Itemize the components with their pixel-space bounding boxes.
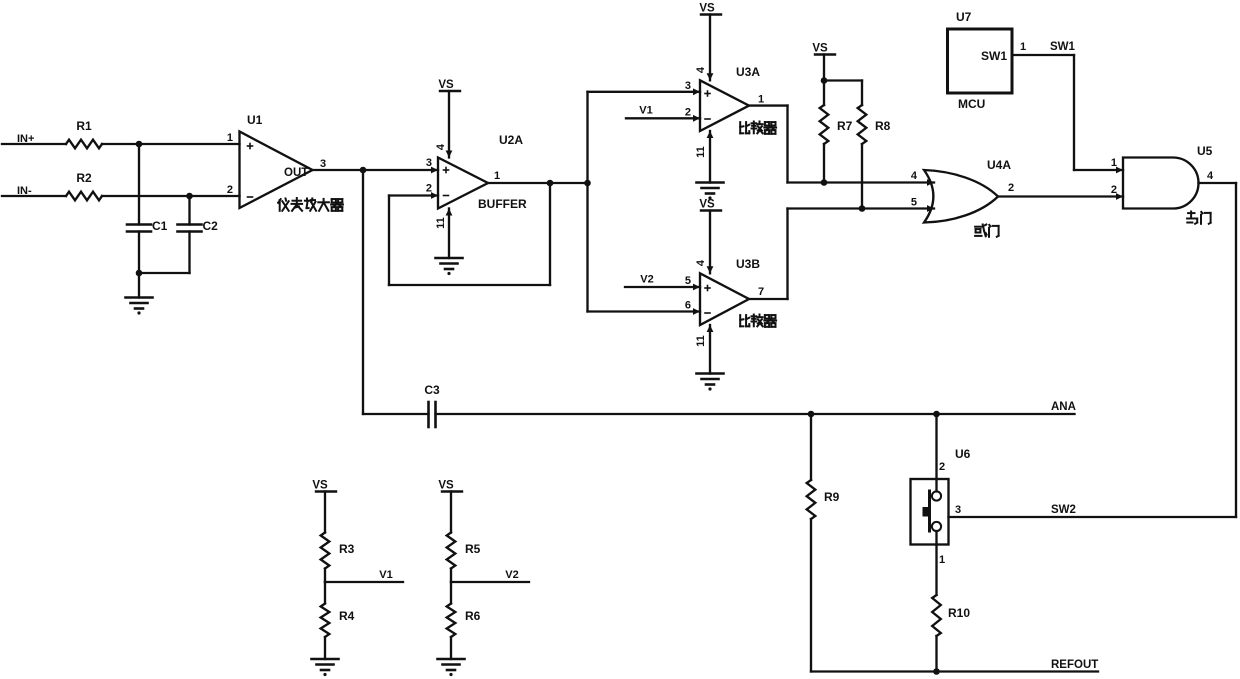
wire R8 lower stem <box>861 144 863 209</box>
power flag VS for U3B <box>699 199 721 211</box>
wire SW1 down to U5 pin1 <box>1073 55 1075 170</box>
wire to ground <box>138 273 140 298</box>
svg-text:R3: R3 <box>339 542 355 556</box>
svg-text:V2: V2 <box>640 274 653 286</box>
wire R6 to ground <box>450 637 452 659</box>
wire R4 to ground <box>324 637 326 659</box>
wire feedback left vertical <box>388 196 390 286</box>
svg-text:VS: VS <box>699 3 715 15</box>
svg-text:2: 2 <box>1008 182 1014 194</box>
label OR gate (CJK) <box>975 225 999 237</box>
svg-text:R5: R5 <box>465 542 481 556</box>
pin number 1 of U1 <box>227 132 233 144</box>
svg-text:1: 1 <box>1020 41 1026 53</box>
label MCU <box>958 97 985 111</box>
pin number 1 of U7 <box>1020 41 1026 53</box>
node junction on IN- line <box>186 193 193 200</box>
ground below U3A <box>697 183 724 200</box>
wire C1 bottom <box>138 232 140 274</box>
pin number 4 of U3A (rotated) <box>695 66 707 73</box>
wire R7/R8 tie <box>824 79 862 81</box>
wire ANA main segment <box>436 413 1075 415</box>
arrow into U2A pin3 <box>431 167 438 174</box>
svg-text:11: 11 <box>695 146 707 158</box>
power flag VS for R7/R8 <box>812 43 835 55</box>
wire R10 lower stem <box>935 636 937 672</box>
wire U6 pin3 / SW2 line <box>949 516 1237 518</box>
wire U3B output <box>749 298 788 300</box>
svg-text:1: 1 <box>939 554 945 566</box>
svg-text:ANA: ANA <box>1051 401 1076 413</box>
resistor R4 <box>321 604 355 638</box>
resistor R5 <box>447 533 481 569</box>
svg-text:3: 3 <box>685 80 691 92</box>
and-gate U5 <box>1123 158 1199 209</box>
wire to U5 pin1 <box>1074 167 1123 174</box>
label comparator (CJK) for U3A <box>740 122 776 134</box>
pin number 2 of U4A <box>1008 182 1014 194</box>
wire to U4A pin5 <box>788 205 935 212</box>
resistor R2 <box>66 171 102 200</box>
wire U2A output <box>488 182 588 184</box>
pin number 5 of U3B <box>685 275 691 287</box>
label comparator (CJK) for U3B <box>740 315 776 327</box>
svg-text:V1: V1 <box>379 569 392 581</box>
pin number 4 of U4A <box>911 170 918 182</box>
svg-text:SW1: SW1 <box>1050 41 1076 53</box>
svg-text:3: 3 <box>955 504 961 516</box>
pin number 4 of U2A (rotated) <box>435 143 447 150</box>
capacitor C3 <box>424 383 440 427</box>
node junction R8 bottom <box>859 205 866 212</box>
net label ANA <box>1051 401 1076 413</box>
node junction on U1 output <box>360 167 367 174</box>
svg-text:4: 4 <box>911 170 918 182</box>
pin number 3 of U6 <box>955 504 961 516</box>
wire U2A pin11 to ground <box>446 209 453 259</box>
node junction R10 bottom <box>933 668 940 675</box>
svg-text:4: 4 <box>435 143 447 150</box>
svg-text:R7: R7 <box>837 119 853 133</box>
capacitor C2 <box>178 219 219 233</box>
power flag VS for R3 <box>312 480 336 492</box>
svg-text:2: 2 <box>939 461 945 473</box>
comparator U3B <box>700 273 749 325</box>
svg-text:U3A: U3A <box>736 65 760 79</box>
label U5 <box>1197 144 1213 158</box>
ground below R4 <box>312 659 339 676</box>
or-gate U4A <box>924 170 998 223</box>
pin number 4 of U3B (rotated) <box>695 259 707 266</box>
wire V2 to U3B pin5 <box>625 284 700 291</box>
resistor R8 <box>858 105 891 144</box>
label AND gate (CJK) <box>1187 212 1211 224</box>
wire U3B pin11 to ground <box>707 325 714 374</box>
resistor R3 <box>321 533 355 569</box>
wire U5 output <box>1199 182 1237 184</box>
mcu U7 box <box>948 29 1013 93</box>
svg-text:R8: R8 <box>875 119 891 133</box>
wire U2A pin2 feedback left <box>389 192 438 199</box>
wire IN+ left segment <box>2 143 66 145</box>
label U2A <box>499 133 523 147</box>
wire down from U1 output to ANA line <box>362 170 364 414</box>
svg-text:V1: V1 <box>639 105 652 117</box>
ground below U2A <box>436 258 463 275</box>
label U7 <box>956 10 972 24</box>
svg-text:R2: R2 <box>76 171 92 185</box>
svg-text:BUFFER: BUFFER <box>478 197 527 211</box>
wire REFOUT <box>811 670 1098 672</box>
svg-text:V2: V2 <box>505 569 518 581</box>
wire R7 upper stem <box>823 81 825 106</box>
pin number 2 of U3A <box>685 107 691 119</box>
svg-text:4: 4 <box>1207 170 1214 182</box>
svg-text:OUT: OUT <box>284 167 308 179</box>
svg-text:U1: U1 <box>247 113 263 127</box>
switch U6 contacts <box>932 491 941 531</box>
label U1 <box>247 113 263 127</box>
wire V1 to U3A pin2 <box>626 115 700 122</box>
svg-text:R1: R1 <box>76 119 92 133</box>
svg-text:VS: VS <box>699 199 715 211</box>
wire to U4A pin4 <box>788 179 935 186</box>
svg-text:C2: C2 <box>203 219 219 233</box>
net label V1 <box>639 105 652 117</box>
wire IN- to U1 pin2 <box>102 195 240 197</box>
net label V1 output <box>379 569 392 581</box>
op-amp U1 <box>240 132 313 209</box>
svg-text:7: 7 <box>758 286 764 298</box>
switch U6 box <box>911 479 949 545</box>
net label REFOUT <box>1051 659 1098 671</box>
svg-text:3: 3 <box>320 158 326 170</box>
svg-text:1: 1 <box>1111 157 1117 169</box>
pin number 11 of U3B (rotated) <box>695 335 707 347</box>
svg-text:R9: R9 <box>824 490 840 504</box>
wire U3B output corner <box>786 209 788 300</box>
pin number 3 of U3A <box>685 80 691 92</box>
wire VS to U2A pin4 <box>446 91 453 158</box>
svg-text:MCU: MCU <box>958 97 985 111</box>
wire U5 output down to SW2 <box>1235 183 1237 517</box>
wire feedback right vertical <box>549 183 551 285</box>
pin number 1 of U6 <box>939 554 945 566</box>
wire U6 pin1 stem <box>935 531 937 595</box>
resistor R7 <box>820 105 853 144</box>
wire down to C2 <box>188 196 190 225</box>
wire bus to comparators <box>586 92 588 312</box>
svg-text:VS: VS <box>438 79 454 91</box>
svg-text:11: 11 <box>695 335 707 347</box>
pin number 5 of U4A <box>911 197 917 209</box>
wire U7 pin1 <box>1012 54 1074 56</box>
op-amp U2A <box>438 158 488 209</box>
pin number 2 of U6 <box>939 461 945 473</box>
svg-text:C1: C1 <box>152 219 168 233</box>
net label IN- <box>17 185 32 197</box>
svg-text:1: 1 <box>227 132 233 144</box>
svg-text:U5: U5 <box>1197 144 1213 158</box>
node junction R9 tap <box>808 411 815 418</box>
pin number 1 of U2A <box>494 170 500 182</box>
svg-text:2: 2 <box>1111 184 1117 196</box>
pin number 1 of U3A <box>758 94 764 106</box>
net label V2 output <box>505 569 518 581</box>
svg-text:4: 4 <box>695 66 707 73</box>
pin number 4 of U5 <box>1207 170 1214 182</box>
wire U4A output to U5 pin2 <box>998 193 1123 200</box>
wire C2 bottom <box>188 232 190 274</box>
pin number 1 of U5 <box>1111 157 1117 169</box>
resistor R6 <box>447 604 481 638</box>
wire node to R4 <box>324 582 326 604</box>
wire VS to U3A pin4 <box>707 15 714 81</box>
label BUFFER <box>478 197 527 211</box>
node junction at C1 bottom <box>136 270 143 277</box>
pin number 11 of U2A (rotated) <box>435 217 447 229</box>
svg-text:1: 1 <box>758 94 764 106</box>
svg-text:C3: C3 <box>424 383 440 397</box>
wire V1 tap <box>325 581 403 583</box>
svg-text:2: 2 <box>227 184 233 196</box>
node junction R7 bottom <box>821 179 828 186</box>
wire U3A output corner <box>786 106 788 183</box>
svg-text:R4: R4 <box>339 609 355 623</box>
pin number 3 of U2A <box>426 157 432 169</box>
svg-text:VS: VS <box>312 480 328 492</box>
ground below U3B <box>697 374 724 391</box>
ground below C1 <box>126 298 153 315</box>
wire ANA to U6 pin2 <box>935 414 937 492</box>
wire R3 to node <box>324 569 326 583</box>
wire VS to R7 top <box>823 55 825 81</box>
svg-text:5: 5 <box>685 275 691 287</box>
pin number 2 of U1 <box>227 184 233 196</box>
net label IN+ <box>17 133 34 145</box>
svg-text:11: 11 <box>435 217 447 229</box>
wire R9 upper stem <box>810 414 812 480</box>
wire U3A pin3 <box>588 88 701 95</box>
net label SW2 <box>1051 504 1076 516</box>
node junction R7 top <box>821 77 828 84</box>
wire VS to R3 <box>324 492 326 533</box>
power flag VS for U2A <box>438 79 460 91</box>
pin number 11 of U3A (rotated) <box>695 146 707 158</box>
svg-text:VS: VS <box>812 43 828 55</box>
label instrumentation amplifier (CJK) <box>278 198 343 211</box>
capacitor C1 <box>127 219 168 233</box>
wire feedback bottom <box>389 284 550 286</box>
svg-text:SW2: SW2 <box>1051 504 1076 516</box>
label U6 <box>955 447 971 461</box>
wire VS to R5 <box>450 492 452 533</box>
svg-text:4: 4 <box>695 259 707 266</box>
wire down to C1 <box>138 144 140 225</box>
wire bus to U3B pin6 <box>588 308 701 315</box>
comparator U3A <box>700 80 749 131</box>
node junction on U2A output <box>547 180 554 187</box>
switch U6 lever <box>923 491 930 531</box>
svg-text:1: 1 <box>494 170 500 182</box>
resistor R1 <box>66 119 102 148</box>
wire VS to U3B pin4 <box>707 211 714 274</box>
resistor R9 <box>807 480 840 519</box>
wire IN- left segment <box>2 195 66 197</box>
node junction on IN+ line <box>136 141 143 148</box>
wire V2 tap <box>451 581 529 583</box>
wire R9 lower stem <box>810 519 812 672</box>
node junction U6 tap <box>933 411 940 418</box>
svg-text:U6: U6 <box>955 447 971 461</box>
label U3B <box>736 257 760 271</box>
pin number 2 of U5 <box>1111 184 1117 196</box>
svg-text:U3B: U3B <box>736 257 760 271</box>
wire joining C1/C2 bottoms <box>139 272 190 274</box>
wire U3A pin11 to ground <box>707 131 714 183</box>
pin number 2 of U2A <box>426 183 432 195</box>
svg-text:2: 2 <box>685 107 691 119</box>
svg-text:U4A: U4A <box>987 158 1011 172</box>
svg-text:SW1: SW1 <box>981 49 1007 63</box>
svg-text:R6: R6 <box>465 609 481 623</box>
wire U3A output <box>749 104 788 106</box>
ground below R6 <box>438 659 465 676</box>
net label V2 <box>640 274 653 286</box>
pin number 3 of U1 <box>320 158 326 170</box>
svg-text:REFOUT: REFOUT <box>1051 659 1098 671</box>
pin number 6 of U3B <box>685 300 691 312</box>
wire ANA left segment <box>363 413 429 415</box>
label SW1 inside U7 <box>981 49 1007 63</box>
svg-text:R10: R10 <box>948 606 970 620</box>
label U4A <box>987 158 1011 172</box>
power flag VS for R5 <box>438 480 462 492</box>
node junction on bus <box>584 180 591 187</box>
wire U1 output <box>313 169 439 171</box>
wire node to R6 <box>450 582 452 604</box>
resistor R10 <box>932 595 970 636</box>
svg-text:U7: U7 <box>956 10 972 24</box>
svg-text:U2A: U2A <box>499 133 523 147</box>
wire IN+ to U1 pin1 <box>102 143 240 145</box>
wire R5 to node <box>450 569 452 583</box>
label U3A <box>736 65 760 79</box>
svg-text:5: 5 <box>911 197 917 209</box>
wire R7 lower stem <box>823 144 825 183</box>
pin number 7 of U3B <box>758 286 764 298</box>
svg-text:6: 6 <box>685 300 691 312</box>
svg-text:VS: VS <box>438 480 454 492</box>
wire R8 upper stem <box>861 81 863 106</box>
power flag VS for U3A <box>699 3 721 15</box>
net label SW1 <box>1050 41 1076 53</box>
